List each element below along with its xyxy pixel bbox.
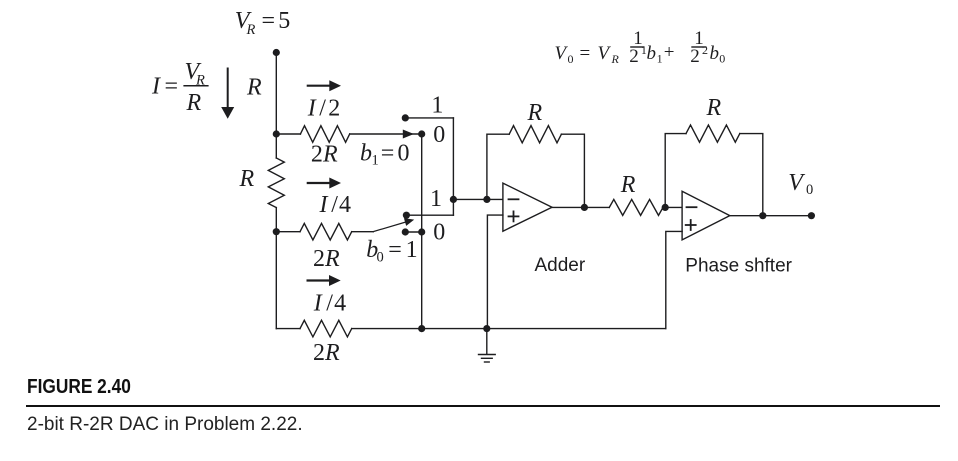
label 2R (b1 branch) — [311, 142, 338, 168]
svg-text:=: = — [165, 73, 179, 99]
label I/4 (bottom) — [313, 290, 346, 316]
current arrow I/4 (middle) — [308, 178, 341, 189]
svg-text:Adder: Adder — [535, 255, 586, 276]
svg-text:R: R — [527, 100, 543, 126]
svg-text:I: I — [151, 73, 161, 99]
svg-text:R: R — [186, 90, 202, 116]
junction bus and ground — [483, 325, 490, 332]
label b0 = 1 — [366, 237, 417, 265]
svg-text:1: 1 — [431, 92, 443, 118]
wire summing node to op-amp U1 minus input — [453, 198, 503, 200]
svg-text:=: = — [388, 237, 402, 263]
label I/2 — [307, 96, 341, 122]
svg-text:R: R — [706, 95, 722, 121]
svg-text:V: V — [598, 43, 612, 64]
resistor R4 (U1 feedback R) — [509, 126, 561, 143]
junction bus and rail N0 — [418, 325, 425, 332]
wire U1 plus input to ground bus — [487, 215, 503, 329]
wire U2 output to Vo terminal — [730, 215, 812, 217]
label I/4 (middle) — [319, 192, 352, 218]
svg-text:b: b — [647, 43, 657, 64]
junction U1 summing node — [483, 196, 490, 203]
svg-text:I: I — [319, 192, 329, 218]
resistor R1 (R vertical) — [268, 158, 284, 208]
svg-text:2: 2 — [313, 340, 325, 366]
svg-text:/: / — [331, 192, 338, 218]
op-amp U1 (Adder) — [503, 183, 552, 231]
svg-text:=: = — [580, 43, 591, 64]
svg-text:5: 5 — [278, 8, 290, 34]
svg-text:0: 0 — [719, 52, 725, 66]
switch b0 arm arrowhead — [404, 218, 414, 226]
wire U1 feedback down leg — [561, 134, 584, 207]
wire U2 plus input to ground bus — [666, 231, 682, 328]
svg-text:R: R — [324, 246, 340, 272]
svg-text:V: V — [555, 43, 569, 64]
label 2R (terminating) — [313, 340, 340, 366]
current arrow I/4 (bottom) — [308, 275, 341, 286]
wire 2R to switch b0 pivot — [352, 231, 374, 233]
svg-text:Phase shfter: Phase shfter — [685, 256, 792, 277]
svg-text:R: R — [239, 166, 255, 192]
U2 minus pin label — [687, 206, 697, 208]
svg-text:R: R — [324, 340, 340, 366]
svg-text:R: R — [322, 142, 338, 168]
U1 plus pin label — [509, 211, 519, 221]
svg-text:1: 1 — [372, 153, 379, 169]
svg-text:0: 0 — [377, 249, 384, 265]
svg-text:4: 4 — [339, 192, 351, 218]
wire b0 contact 1 to rail N1 — [406, 214, 453, 216]
switch b1 arm arrowhead (points at contact 0) — [403, 130, 414, 139]
resistor R7 (terminating 2R) — [300, 320, 352, 337]
wire b0 contact 0 stub to rail N0 — [405, 231, 421, 233]
junction U2 output node — [759, 212, 766, 219]
svg-text:2: 2 — [702, 43, 708, 57]
formula V0 = VR (1/2^1)b1 + (1/2^2)b0 — [555, 28, 726, 67]
wire node B to resistor 2R b0 — [276, 231, 300, 233]
wire U1 feedback up leg — [487, 134, 509, 199]
node A junction — [273, 130, 280, 137]
wire node B down to bottom bus — [275, 208, 277, 329]
svg-text:1: 1 — [657, 52, 663, 66]
svg-text:2: 2 — [629, 46, 639, 67]
svg-text:0: 0 — [398, 141, 410, 167]
wire rail N1 (1-contacts to adder input) — [452, 118, 454, 215]
svg-text:=: = — [262, 8, 276, 34]
label Vo output — [788, 170, 813, 198]
svg-text:2: 2 — [690, 46, 700, 67]
svg-text:b: b — [710, 43, 720, 64]
svg-text:R: R — [620, 172, 636, 198]
wire U2 feedback up leg — [665, 134, 686, 208]
current arrow I (down) — [221, 69, 234, 119]
svg-text:/: / — [326, 290, 333, 316]
resistor R5 (series R to U2) — [609, 199, 663, 215]
svg-text:I: I — [307, 96, 317, 122]
svg-text:I: I — [313, 290, 323, 316]
label 2R (b0 branch) — [313, 246, 340, 272]
op-amp U2 (Phase shifter) — [682, 191, 730, 240]
wire U1 output — [552, 206, 609, 208]
node B junction — [273, 228, 280, 235]
switch b0 arm (thrown to contact 1) — [373, 222, 406, 232]
resistor R3 (2R, b0 branch) — [300, 223, 352, 240]
node VR top terminal — [273, 49, 280, 56]
U2 plus pin label — [686, 220, 696, 230]
label I = VR/R equation — [151, 59, 209, 116]
svg-text:/: / — [319, 96, 326, 122]
label VR = 5 — [235, 8, 290, 38]
node Vo output terminal — [808, 212, 815, 219]
label b1 = 0 — [360, 141, 410, 169]
junction rail N0 at b0 row — [418, 228, 425, 235]
svg-text:0: 0 — [433, 122, 445, 148]
junction U2 input node — [662, 204, 669, 211]
wire U2 feedback down leg — [740, 134, 763, 216]
wire 2R to switch b1 arm — [350, 133, 422, 135]
svg-text:R: R — [246, 22, 256, 38]
svg-text:0: 0 — [806, 182, 813, 198]
wire ground bus — [276, 328, 300, 330]
svg-text:1: 1 — [430, 186, 442, 212]
current arrow I/2 — [308, 80, 341, 91]
svg-text:=: = — [381, 141, 395, 167]
U1 minus pin label — [509, 198, 519, 200]
svg-text:1: 1 — [406, 237, 418, 263]
resistor R2 (2R, b1 branch) — [300, 126, 349, 143]
junction U1 output node — [581, 204, 588, 211]
switch b0 contact 1 — [403, 212, 410, 219]
figure caption block — [27, 376, 131, 399]
svg-text:2: 2 — [311, 142, 323, 168]
svg-text:2: 2 — [328, 96, 340, 122]
ground symbol — [479, 329, 496, 362]
wire ground bus right section — [352, 328, 666, 330]
junction rail N1 output tap — [450, 196, 457, 203]
svg-text:V: V — [788, 170, 805, 196]
wire VR terminal to node A — [275, 53, 277, 159]
wire rail N0 (0-contacts to ground bus) — [421, 134, 423, 329]
svg-text:2: 2 — [313, 246, 325, 272]
switch b1 contact 1 — [402, 114, 409, 121]
svg-text:4: 4 — [334, 290, 346, 316]
svg-text:R: R — [611, 52, 620, 66]
wire R5 to U2 minus node — [663, 206, 682, 208]
switch b1 contact 0 (on rail N0) — [418, 130, 425, 137]
wire b1 contact 1 to rail N1 — [405, 117, 453, 119]
svg-text:0: 0 — [433, 220, 445, 246]
svg-text:b: b — [360, 141, 372, 167]
svg-text:+: + — [664, 42, 675, 63]
svg-text:0: 0 — [568, 52, 574, 66]
svg-text:R: R — [246, 74, 262, 100]
resistor R6 (U2 feedback R) — [686, 125, 740, 142]
wire node A to resistor 2R b1 — [276, 133, 300, 135]
switch b0 contact 0 — [402, 228, 409, 235]
